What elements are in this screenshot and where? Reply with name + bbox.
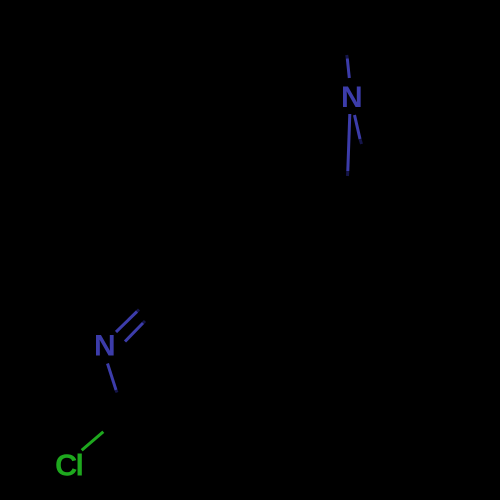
svg-text:Cl: Cl [55,448,82,483]
svg-text:N: N [341,81,363,114]
svg-text:N: N [94,329,116,362]
